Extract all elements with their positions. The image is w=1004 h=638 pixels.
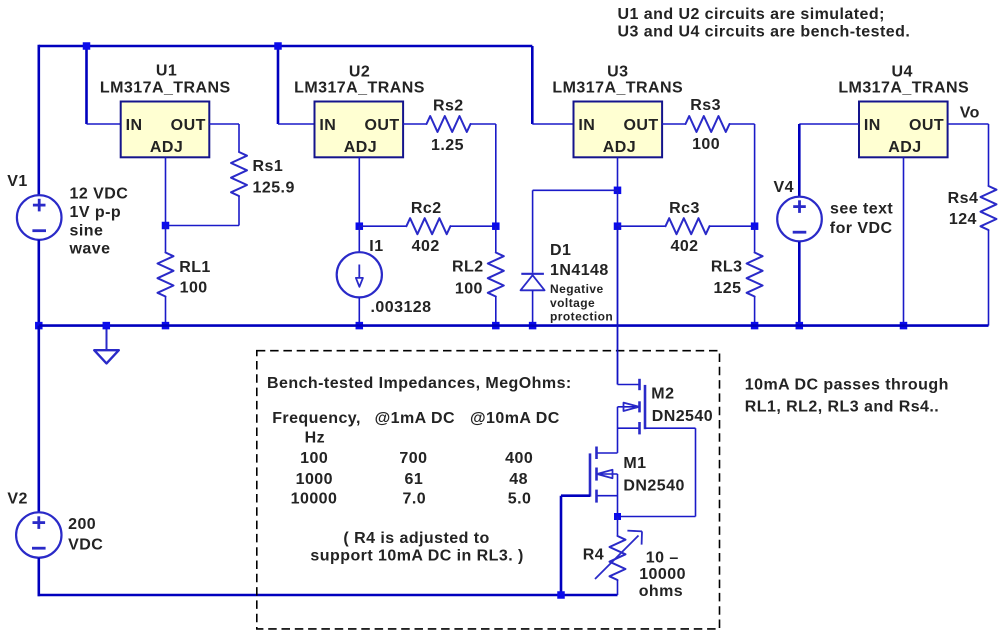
wire U2 OUT to Rs2 bbox=[403, 123, 426, 125]
junction M1 gate / bottom loop bbox=[557, 591, 565, 599]
svg-text:1N4148: 1N4148 bbox=[550, 262, 609, 279]
diode D1 bbox=[521, 274, 545, 291]
svg-text:DN2540: DN2540 bbox=[652, 408, 713, 425]
svg-text:RL1: RL1 bbox=[179, 259, 211, 276]
junction RL3 / bottom rail bbox=[751, 322, 759, 330]
label Rc3 value bbox=[669, 200, 700, 255]
svg-text:402: 402 bbox=[412, 238, 440, 255]
svg-text:10000: 10000 bbox=[291, 490, 338, 507]
junction ground / bottom rail bbox=[103, 322, 111, 330]
label U4 LM317A_TRANS bbox=[838, 80, 969, 97]
junction U4 ADJ / bottom rail bbox=[900, 322, 908, 330]
label Vo bbox=[960, 105, 980, 122]
svg-text:for VDC: for VDC bbox=[830, 220, 893, 237]
svg-text:125.9: 125.9 bbox=[253, 180, 295, 197]
svg-text:ADJ: ADJ bbox=[150, 139, 183, 156]
wire M1 gate to bottom loop bbox=[561, 496, 590, 595]
svg-text:400: 400 bbox=[505, 450, 533, 467]
svg-text:support 10mA DC in RL3. ): support 10mA DC in RL3. ) bbox=[310, 547, 523, 564]
svg-text:V2: V2 bbox=[7, 491, 27, 508]
junction I1 / bottom rail bbox=[356, 322, 364, 330]
resistor Rc3 bbox=[618, 218, 755, 234]
wire RL2 to bottom rail bbox=[495, 297, 497, 326]
junction V1 / bottom rail bbox=[35, 322, 43, 330]
label RL1 value bbox=[179, 259, 211, 297]
wire Rs4 to bottom rail bbox=[988, 230, 990, 326]
wire U2 ADJ drop bbox=[358, 157, 360, 226]
resistor Rs2 bbox=[427, 116, 471, 132]
svg-text:U4: U4 bbox=[892, 63, 913, 80]
resistor Rs3 bbox=[686, 116, 730, 132]
junction V4 / bottom rail bbox=[796, 322, 804, 330]
wire D1 branch horizontal bbox=[533, 189, 618, 191]
svg-text:.003128: .003128 bbox=[371, 299, 432, 316]
svg-text:RL1, RL2, RL3 and Rs4..: RL1, RL2, RL3 and Rs4.. bbox=[745, 398, 939, 415]
svg-text:Rs1: Rs1 bbox=[253, 158, 284, 175]
transistor M2 bbox=[618, 379, 696, 435]
svg-text:ohms: ohms bbox=[639, 583, 683, 600]
svg-text:ADJ: ADJ bbox=[344, 139, 377, 156]
wire RL3 column upper bbox=[754, 226, 756, 252]
label V1 bbox=[7, 173, 27, 190]
label U1 LM317A_TRANS bbox=[100, 80, 231, 97]
wire V2 to bottom loop bbox=[38, 558, 618, 596]
svg-text:200: 200 bbox=[68, 516, 96, 533]
svg-text:@10mA DC: @10mA DC bbox=[470, 410, 560, 427]
svg-text:48: 48 bbox=[509, 471, 528, 488]
label U1 bbox=[156, 62, 177, 79]
ground bbox=[94, 326, 119, 364]
svg-text:7.0: 7.0 bbox=[403, 490, 427, 507]
wire bottom rail bbox=[39, 324, 989, 327]
svg-text:U3: U3 bbox=[607, 63, 628, 80]
junction top rail / U2 IN bbox=[274, 42, 282, 50]
junction U1 ADJ node bbox=[162, 222, 170, 230]
wire Rs3 to RL3 column bbox=[730, 124, 755, 226]
label Rc2 value bbox=[411, 200, 442, 255]
label M1 bbox=[623, 455, 684, 494]
svg-text:Rs4: Rs4 bbox=[948, 190, 979, 207]
wire U4 ADJ drop bbox=[903, 157, 905, 325]
svg-text:U3 and U4 circuits are bench-t: U3 and U4 circuits are bench-tested. bbox=[618, 24, 911, 41]
wire V4 to U4 IN bbox=[799, 124, 859, 196]
svg-text:OUT: OUT bbox=[909, 117, 944, 134]
svg-text:LM317A_TRANS: LM317A_TRANS bbox=[100, 80, 231, 97]
wire ADJ node to RL1 bbox=[165, 226, 167, 253]
label D1 bbox=[550, 242, 609, 279]
svg-text:M1: M1 bbox=[623, 455, 646, 472]
dashed bench-test box bbox=[257, 351, 720, 629]
svg-text:Hz: Hz bbox=[305, 429, 325, 446]
svg-text:V1: V1 bbox=[7, 173, 27, 190]
wire U1 ADJ drop bbox=[165, 157, 167, 225]
svg-text:100: 100 bbox=[300, 450, 328, 467]
svg-text:1.25: 1.25 bbox=[431, 137, 464, 154]
op-amp U3 regulator box bbox=[574, 102, 663, 158]
junction U2 ADJ node bbox=[356, 222, 364, 230]
label table header bbox=[272, 410, 560, 427]
svg-text:OUT: OUT bbox=[364, 117, 399, 134]
svg-text:1000: 1000 bbox=[296, 471, 333, 488]
svg-text:402: 402 bbox=[670, 238, 698, 255]
label RL2 value bbox=[452, 259, 484, 298]
wire R4 top lead bbox=[617, 517, 619, 537]
voltage source V2 bbox=[16, 512, 61, 557]
svg-text:( R4 is adjusted to: ( R4 is adjusted to bbox=[343, 530, 489, 547]
wire RL1 to bottom rail bbox=[165, 297, 167, 326]
svg-text:Rs3: Rs3 bbox=[690, 97, 721, 114]
svg-text:1V p-p: 1V p-p bbox=[70, 204, 122, 221]
resistor Rs4 bbox=[981, 186, 997, 230]
svg-text:V4: V4 bbox=[774, 179, 794, 196]
wire U1 OUT to Rs1 bbox=[209, 124, 239, 152]
label right annotation bbox=[745, 376, 949, 415]
wire M2 gate to M1 drain bbox=[617, 407, 619, 453]
svg-text:M2: M2 bbox=[651, 386, 674, 403]
svg-text:Rs2: Rs2 bbox=[433, 97, 464, 114]
junction U3 ADJ / D1 node bbox=[614, 187, 622, 195]
label RL3 value bbox=[711, 259, 743, 298]
label table header Hz bbox=[305, 429, 325, 446]
label U3 LM317A_TRANS bbox=[552, 80, 683, 97]
wire top rail bbox=[39, 45, 533, 48]
wire U3 OUT to Rs3 bbox=[662, 123, 685, 125]
label R4 note bbox=[310, 530, 523, 565]
resistor Rs1 bbox=[231, 152, 247, 196]
wire U3 ADJ drop bbox=[617, 157, 619, 190]
label table row1 bbox=[300, 450, 533, 467]
wire ADJ to I1 bbox=[358, 226, 360, 252]
svg-text:61: 61 bbox=[405, 471, 424, 488]
junction RL2 / bottom rail bbox=[492, 322, 500, 330]
label Rs2 value bbox=[431, 97, 464, 154]
wire U2 IN drop bbox=[278, 46, 315, 124]
label V4 note bbox=[830, 201, 894, 238]
wire U4 OUT to Rs4 bbox=[948, 124, 989, 186]
svg-text:100: 100 bbox=[455, 280, 483, 297]
svg-text:Rc2: Rc2 bbox=[411, 200, 442, 217]
svg-text:Vo: Vo bbox=[960, 105, 980, 122]
resistor Rc2 bbox=[359, 218, 496, 234]
label R4 value bbox=[639, 550, 686, 600]
op-amp U4 regulator box bbox=[859, 102, 948, 158]
label top annotation bbox=[618, 6, 911, 41]
wire U3 ADJ node to Rc3 node bbox=[617, 190, 619, 226]
svg-text:DN2540: DN2540 bbox=[623, 477, 684, 494]
wire Rs1 bottom to ADJ node bbox=[166, 196, 240, 226]
svg-text:see text: see text bbox=[830, 201, 893, 218]
resistor RL2 bbox=[488, 253, 504, 297]
svg-text:700: 700 bbox=[399, 450, 427, 467]
resistor RL1 bbox=[158, 253, 174, 297]
wire I1 to bottom rail bbox=[358, 297, 360, 325]
svg-text:124: 124 bbox=[949, 211, 977, 228]
label U2 LM317A_TRANS bbox=[294, 80, 425, 97]
label I1 value bbox=[371, 299, 432, 316]
current source I1 bbox=[337, 252, 382, 297]
svg-text:125: 125 bbox=[713, 280, 741, 297]
svg-text:RL2: RL2 bbox=[452, 259, 484, 276]
svg-text:OUT: OUT bbox=[623, 117, 658, 134]
svg-text:sine: sine bbox=[70, 222, 104, 239]
wire RL3 to bottom rail bbox=[754, 297, 756, 326]
svg-text:wave: wave bbox=[69, 241, 111, 258]
op-amp U1 regulator box bbox=[121, 102, 210, 158]
svg-text:Frequency,: Frequency, bbox=[272, 410, 361, 427]
junction R4 top node bbox=[614, 513, 621, 520]
svg-text:protection: protection bbox=[550, 310, 613, 324]
label Rs4 value bbox=[948, 190, 979, 228]
wire U1 IN drop bbox=[87, 46, 121, 124]
label V2 value bbox=[68, 516, 103, 553]
svg-text:LM317A_TRANS: LM317A_TRANS bbox=[838, 80, 969, 97]
junction D1 / bottom rail bbox=[529, 322, 537, 330]
svg-text:U1: U1 bbox=[156, 62, 177, 79]
wire R4 bottom lead bbox=[617, 580, 619, 595]
op-amp U2 regulator box bbox=[315, 102, 404, 158]
voltage source V4 bbox=[777, 197, 822, 242]
wire V4 bottom to bottom rail bbox=[798, 242, 801, 326]
svg-text:Negative: Negative bbox=[550, 282, 604, 296]
junction Rc3 left node bbox=[614, 222, 622, 230]
label M2 bbox=[651, 386, 713, 425]
svg-text:R4: R4 bbox=[583, 546, 604, 563]
svg-text:100: 100 bbox=[180, 280, 208, 297]
label Rs3 value bbox=[690, 97, 721, 153]
label V2 bbox=[7, 491, 27, 508]
svg-text:@1mA DC: @1mA DC bbox=[375, 410, 455, 427]
wire bottom rail to V2 bbox=[37, 326, 40, 513]
svg-text:12 VDC: 12 VDC bbox=[70, 186, 129, 203]
wire U3 IN drop bbox=[532, 46, 573, 124]
svg-text:IN: IN bbox=[126, 117, 143, 134]
wire RL2 column upper bbox=[495, 226, 497, 252]
junction top rail / U1 IN bbox=[83, 42, 91, 50]
voltage source V1 bbox=[17, 195, 62, 240]
svg-text:5.0: 5.0 bbox=[508, 490, 532, 507]
svg-text:U2: U2 bbox=[349, 63, 370, 80]
svg-text:VDC: VDC bbox=[68, 537, 103, 554]
label U3 bbox=[607, 63, 628, 80]
label table row2 bbox=[296, 471, 528, 488]
junction Rc2 / RL2 column bbox=[492, 222, 500, 230]
svg-text:D1: D1 bbox=[550, 242, 571, 259]
svg-text:voltage: voltage bbox=[550, 296, 595, 310]
junction Rc3 / RL3 column bbox=[751, 222, 759, 230]
label bench table title bbox=[267, 375, 572, 392]
svg-text:100: 100 bbox=[692, 136, 720, 153]
wire M2 gate loop bbox=[618, 428, 696, 516]
svg-text:I1: I1 bbox=[369, 238, 383, 255]
svg-text:IN: IN bbox=[578, 117, 595, 134]
svg-text:ADJ: ADJ bbox=[888, 139, 921, 156]
svg-text:U1 and U2 circuits are simulat: U1 and U2 circuits are simulated; bbox=[618, 6, 885, 23]
svg-text:10mA DC passes through: 10mA DC passes through bbox=[745, 376, 949, 393]
resistor RL3 bbox=[747, 253, 763, 297]
wire M1 source to R4 node bbox=[617, 474, 619, 517]
svg-text:LM317A_TRANS: LM317A_TRANS bbox=[294, 80, 425, 97]
svg-text:RL3: RL3 bbox=[711, 259, 743, 276]
wire Rs2 to RL2 column bbox=[471, 124, 496, 226]
wire left rail top (V1 feed) bbox=[37, 45, 40, 196]
label V1 value bbox=[69, 186, 129, 258]
wire V1 bottom to bottom rail bbox=[37, 240, 40, 326]
svg-text:OUT: OUT bbox=[171, 117, 206, 134]
resistor R4 variable bbox=[595, 531, 642, 580]
label R4 bbox=[583, 546, 604, 563]
label I1 bbox=[369, 238, 383, 255]
svg-text:ADJ: ADJ bbox=[603, 139, 636, 156]
wire U3 ADJ to M2 drain bbox=[617, 226, 619, 384]
svg-text:LM317A_TRANS: LM317A_TRANS bbox=[552, 80, 683, 97]
label U2 bbox=[349, 63, 370, 80]
wire D1 to bottom rail bbox=[532, 290, 534, 325]
label Rs1 value bbox=[253, 158, 295, 197]
svg-text:IN: IN bbox=[319, 117, 336, 134]
svg-text:10000: 10000 bbox=[639, 566, 686, 583]
transistor M1 bbox=[590, 447, 618, 503]
svg-text:Bench-tested Impedances, MegOh: Bench-tested Impedances, MegOhms: bbox=[267, 375, 572, 392]
wire D1 column upper bbox=[532, 190, 534, 272]
label U4 bbox=[892, 63, 913, 80]
junction RL1 / bottom rail bbox=[162, 322, 170, 330]
svg-text:10 –: 10 – bbox=[646, 550, 679, 567]
label D1 note bbox=[550, 282, 613, 323]
svg-text:Rc3: Rc3 bbox=[669, 200, 700, 217]
label V4 bbox=[774, 179, 794, 196]
svg-text:IN: IN bbox=[864, 117, 881, 134]
label table row3 bbox=[291, 490, 532, 507]
